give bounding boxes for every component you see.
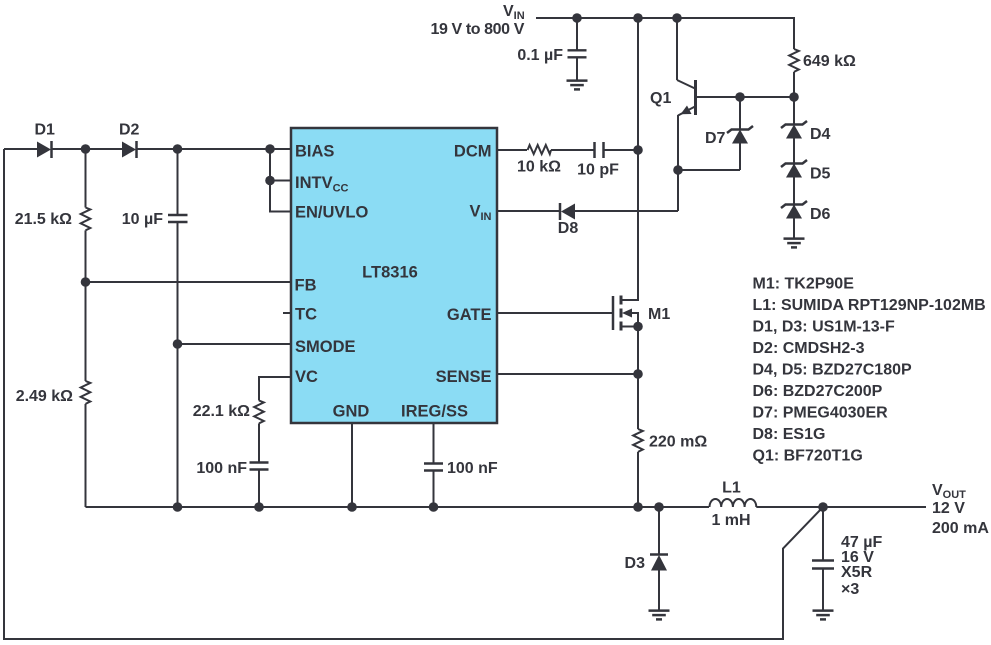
ground under D6	[784, 239, 805, 248]
svg-text:IREG/SS: IREG/SS	[401, 403, 468, 421]
wire VIN top rail	[536, 18, 794, 49]
wire D7 bottom to emitter	[678, 169, 740, 171]
wire L1 to VOUT	[756, 506, 926, 508]
junction BIAS/INTVCC/EN net	[265, 144, 275, 154]
wire INTVCC stub	[270, 180, 291, 182]
wire SENSE	[497, 373, 638, 375]
junction VIN rail / Q1 collector	[672, 13, 682, 23]
wire BIAS to EN/UVLO vertical	[270, 149, 291, 212]
svg-text:D7: PMEG4030ER: D7: PMEG4030ER	[753, 405, 889, 422]
resistor 22.1k	[193, 401, 264, 463]
inductor L1	[710, 480, 757, 530]
capacitor 47uF	[812, 507, 882, 610]
svg-text:BIAS: BIAS	[295, 143, 334, 161]
wire ground bus	[86, 506, 710, 508]
wire M1 drain column	[637, 18, 639, 300]
junction 21.5k top	[81, 144, 91, 154]
wire Q1 collector column	[676, 18, 678, 80]
junction INTVCC	[265, 176, 275, 186]
wire 10uF bottom to GND bus	[177, 344, 179, 507]
diode D8	[558, 203, 579, 237]
svg-text:TC: TC	[295, 306, 317, 324]
junction VIN rail / 0.1uF	[572, 13, 582, 23]
svg-text:D6: D6	[810, 206, 831, 223]
svg-text:M1: TK2P90E: M1: TK2P90E	[753, 276, 855, 293]
svg-text:FB: FB	[295, 277, 317, 295]
svg-text:L1: SUMIDA RPT129NP-102MB: L1: SUMIDA RPT129NP-102MB	[753, 297, 986, 314]
capacitor 100nF (VC)	[196, 460, 268, 507]
junction bus/10uF	[173, 502, 183, 512]
svg-text:VC: VC	[295, 368, 318, 386]
junction bus/GND pin	[347, 502, 357, 512]
svg-text:21.5 kΩ: 21.5 kΩ	[15, 211, 72, 228]
resistor 21.5k	[15, 149, 91, 282]
junction VIN rail / M1 drain column	[633, 13, 643, 23]
svg-text:M1: M1	[648, 306, 670, 323]
junction 10uF top	[173, 144, 183, 154]
wire D8 to emitter column	[575, 210, 678, 212]
wire GND pin to bus	[351, 423, 353, 507]
wire output feedback return	[4, 149, 823, 639]
wire Q1 emitter column	[677, 115, 679, 211]
wire D2 to BIAS pin	[137, 148, 292, 150]
junction drain column / 10pF	[633, 145, 643, 155]
ground under 0.1uF	[567, 81, 588, 90]
svg-text:D8: ES1G: D8: ES1G	[753, 426, 826, 443]
ground under 47uF	[813, 611, 834, 620]
svg-text:DCM: DCM	[454, 143, 492, 161]
junction bus/IREG cap	[429, 502, 439, 512]
wire VIN pin to D8	[497, 210, 560, 212]
svg-text:D7: D7	[705, 130, 726, 147]
wire TC stub	[283, 312, 291, 314]
resistor 2.49k	[16, 282, 91, 507]
resistor 220m	[633, 429, 707, 507]
junction M1 source/body	[633, 322, 643, 332]
svg-text:10 kΩ: 10 kΩ	[517, 159, 561, 176]
svg-text:D2: D2	[119, 122, 140, 139]
transistor Q1	[677, 80, 696, 116]
wire IREG/SS pin down	[433, 423, 435, 463]
junction SENSE	[633, 369, 643, 379]
junction base / D7	[735, 92, 745, 102]
svg-text:D1: D1	[35, 122, 56, 139]
svg-text:X5R: X5R	[841, 564, 873, 581]
junction SMODE / 10uF bottom	[173, 339, 183, 349]
svg-text:D4: D4	[810, 126, 831, 143]
svg-text:D3: D3	[625, 555, 646, 572]
parts list	[753, 276, 986, 465]
svg-text:SMODE: SMODE	[295, 338, 356, 356]
wire VC	[259, 377, 291, 401]
capacitor 0.1uF	[568, 18, 587, 81]
junction VOUT node	[818, 502, 828, 512]
svg-text:×3: ×3	[841, 581, 859, 598]
junction bus/100nF VC	[254, 502, 264, 512]
svg-text:D6: BZD27C200P: D6: BZD27C200P	[753, 383, 883, 400]
wire DCM	[497, 149, 527, 151]
capacitor 10pF	[577, 142, 638, 179]
svg-text:649 kΩ: 649 kΩ	[803, 53, 856, 70]
IC U1 LT8316 body	[291, 128, 497, 423]
svg-text:12 V: 12 V	[932, 500, 965, 517]
svg-text:GND: GND	[333, 403, 370, 421]
resistor 10k	[517, 145, 594, 176]
diode D3	[625, 507, 668, 610]
diode D4 (zener)	[781, 97, 831, 163]
diode D2	[119, 122, 140, 159]
svg-text:Q1: Q1	[650, 90, 671, 107]
junction bus/D3	[654, 502, 664, 512]
junction FB / divider	[81, 277, 91, 287]
svg-text:EN/UVLO: EN/UVLO	[295, 204, 369, 222]
svg-text:1 mH: 1 mH	[711, 512, 750, 529]
svg-text:100 nF: 100 nF	[447, 460, 498, 477]
svg-text:GATE: GATE	[447, 306, 492, 324]
svg-text:19 V to 800 V: 19 V to 800 V	[430, 21, 524, 38]
diode D6 (zener)	[781, 201, 831, 238]
svg-text:100 nF: 100 nF	[196, 460, 247, 477]
wire GATE	[497, 312, 613, 314]
svg-text:L1: L1	[722, 480, 741, 497]
svg-text:2.49 kΩ: 2.49 kΩ	[16, 388, 73, 405]
svg-text:22.1 kΩ: 22.1 kΩ	[193, 403, 250, 420]
wire SMODE	[178, 343, 292, 345]
svg-text:10 µF: 10 µF	[122, 211, 163, 228]
svg-text:D5: D5	[810, 166, 831, 183]
diode D5 (zener)	[781, 160, 831, 204]
junction bus/220m	[633, 502, 643, 512]
svg-text:LT8316: LT8316	[362, 264, 418, 282]
junction emitter / D7 bottom wire	[673, 165, 683, 175]
junction base / 649k zener stack	[789, 92, 799, 102]
capacitor 10uF	[122, 149, 188, 344]
wire FB	[86, 281, 292, 283]
svg-text:SENSE: SENSE	[436, 368, 492, 386]
svg-text:D1, D3: US1M-13-F: D1, D3: US1M-13-F	[753, 319, 895, 336]
svg-text:VOUT: VOUT	[932, 482, 966, 501]
capacitor 100nF (IREG/SS)	[424, 460, 498, 507]
wire M1 source to sense	[637, 327, 639, 430]
svg-text:10 pF: 10 pF	[577, 162, 619, 179]
svg-text:220 mΩ: 220 mΩ	[649, 434, 707, 451]
svg-text:0.1 µF: 0.1 µF	[517, 47, 563, 64]
svg-text:D2: CMDSH2-3: D2: CMDSH2-3	[753, 340, 865, 357]
diode D7 (zener)	[705, 97, 753, 170]
wire Q1 base	[696, 96, 794, 98]
ground under D3	[649, 611, 670, 620]
wire D1 to D2	[52, 148, 123, 150]
wire left input rail (BIAS net)	[4, 148, 37, 150]
resistor 649k	[789, 49, 856, 97]
svg-text:200 mA: 200 mA	[932, 520, 989, 537]
transistor M1 (NMOS)	[613, 296, 638, 331]
diode D1	[35, 122, 56, 159]
svg-text:D8: D8	[558, 220, 579, 237]
svg-text:D4, D5: BZD27C180P: D4, D5: BZD27C180P	[753, 362, 913, 379]
svg-text:VIN: VIN	[503, 3, 525, 22]
svg-text:Q1: BF720T1G: Q1: BF720T1G	[753, 448, 863, 465]
